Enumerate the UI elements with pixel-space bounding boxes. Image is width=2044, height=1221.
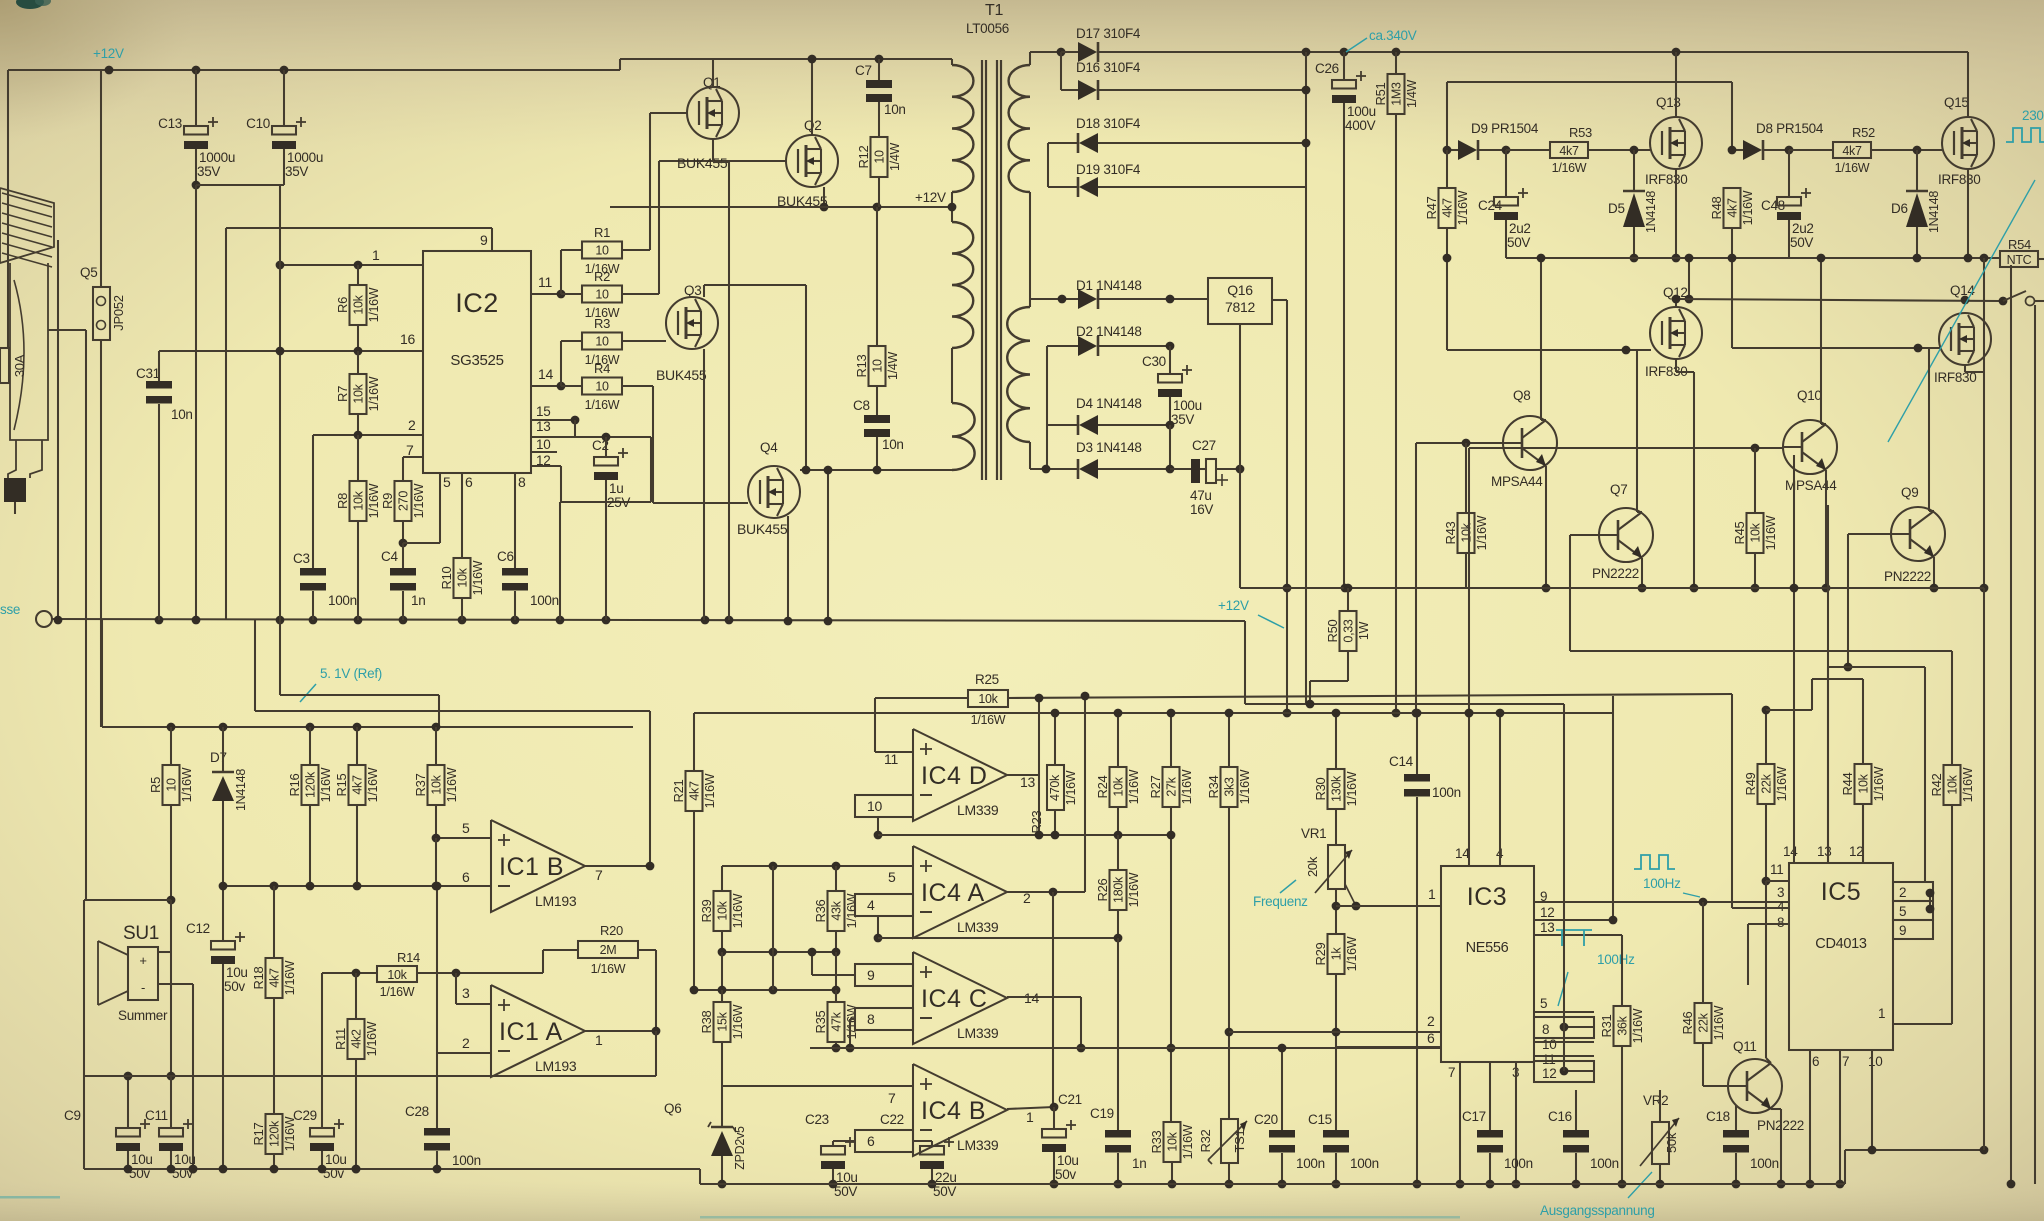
svg-text:15: 15: [536, 404, 550, 419]
wire Q15 source: [1967, 169, 1969, 258]
svg-text:7812: 7812: [1225, 299, 1255, 315]
wire R2 to Q2 gate: [658, 161, 660, 294]
svg-text:R48: R48: [1709, 196, 1724, 219]
svg-text:5: 5: [888, 869, 896, 885]
svg-text:D17 310F4: D17 310F4: [1076, 26, 1141, 41]
svg-text:10u: 10u: [1057, 1153, 1079, 1168]
wire pin13 jog to ground: [650, 437, 652, 502]
svg-text:IC4 D: IC4 D: [921, 762, 987, 790]
wire Q3 drain: [703, 285, 705, 297]
svg-text:10k: 10k: [716, 900, 730, 920]
svg-text:10: 10: [871, 359, 885, 373]
staircase drive line B: [1828, 666, 1925, 668]
svg-text:47u: 47u: [1190, 488, 1212, 503]
wire Q15 drain: [1967, 52, 1969, 117]
svg-text:5. 1V (Ref): 5. 1V (Ref): [320, 666, 382, 681]
svg-text:4k7: 4k7: [1441, 198, 1455, 218]
svg-text:R44: R44: [1840, 772, 1855, 795]
svg-text:50v: 50v: [1055, 1167, 1076, 1182]
wire pin2/5 tie: [1929, 893, 1931, 909]
resistor R49: [1765, 710, 1767, 764]
wire Q2 source down: [823, 187, 825, 207]
svg-text:+12V: +12V: [915, 190, 946, 205]
wire SU1 feed: [84, 899, 171, 901]
wire IC4A pin4 jog: [877, 916, 879, 938]
wire plus bus 1048: [810, 1047, 1441, 1049]
svg-text:Q3: Q3: [684, 283, 701, 298]
wire minus bus A: [878, 937, 1118, 939]
comparator IC4 A: [913, 846, 1007, 938]
wire ladder 990: [694, 989, 836, 991]
wire IC4A output: [1007, 891, 1085, 893]
svg-text:R47: R47: [1424, 196, 1439, 219]
svg-text:1/16W: 1/16W: [1764, 515, 1778, 550]
svg-text:1/16W: 1/16W: [1552, 161, 1587, 175]
resistor R17: [266, 1114, 283, 1154]
wire Q10 base line: [1469, 447, 1783, 449]
wire NTC branch down: [1983, 258, 1985, 588]
wire rail jog right: [1844, 1150, 1846, 1184]
wire IC4B output: [1007, 1107, 1054, 1109]
svg-text:C30: C30: [1142, 354, 1166, 369]
svg-text:C9: C9: [64, 1108, 81, 1123]
capacitor: [821, 1146, 845, 1155]
svg-text:R2: R2: [594, 269, 610, 284]
wire +12V feed down: [1286, 300, 1288, 713]
wire line 1076: [84, 1075, 171, 1077]
capacitor: [594, 457, 618, 466]
svg-text:+12V: +12V: [93, 46, 124, 61]
svg-text:6: 6: [1427, 1030, 1435, 1046]
resistor R2: [561, 293, 582, 295]
wire R25 left to pin11: [875, 697, 968, 699]
resistor R45: [1754, 448, 1756, 513]
capacitor: [1494, 197, 1518, 206]
capacitor: [310, 1128, 334, 1137]
wire Q2 drain up: [811, 59, 813, 135]
resistor R6 column: [357, 265, 359, 285]
resistor R44: [1855, 764, 1872, 804]
wire R37 column: [435, 838, 437, 886]
IC U2 SG3525: [423, 251, 531, 473]
svg-text:100u: 100u: [1347, 104, 1376, 119]
svg-text:120k: 120k: [268, 1120, 282, 1147]
scan artifact teal streak bottom: [700, 1216, 1460, 1219]
svg-text:T1: T1: [985, 2, 1003, 19]
svg-text:C13: C13: [158, 116, 182, 131]
svg-text:10u: 10u: [226, 965, 248, 980]
svg-text:D2 1N4148: D2 1N4148: [1076, 324, 1142, 339]
svg-text:10k: 10k: [352, 490, 366, 510]
comparator IC4 B: [913, 1064, 1007, 1156]
svg-text:Q14: Q14: [1950, 283, 1975, 298]
resistor R3: [582, 333, 622, 350]
capacitor: [116, 1128, 140, 1137]
svg-text:R45: R45: [1732, 521, 1747, 544]
IC U3 NE556: [1441, 866, 1534, 1062]
svg-text:5: 5: [1540, 996, 1547, 1011]
capacitor C13: [195, 70, 197, 126]
svg-text:1/16W: 1/16W: [845, 1004, 859, 1039]
svg-text:100n: 100n: [1350, 1156, 1379, 1171]
svg-text:LM339: LM339: [957, 802, 999, 818]
wire source rail: [1240, 587, 1984, 589]
svg-text:C31: C31: [136, 366, 160, 381]
wire gate drive top rail: [1447, 81, 1732, 83]
wire R49 top link: [1766, 709, 1812, 711]
resistor R49: [1758, 764, 1775, 804]
resistor R10: [454, 558, 471, 598]
resistor R24: [1110, 767, 1127, 807]
node C13 ground: [192, 181, 201, 190]
svg-text:43k: 43k: [830, 900, 844, 920]
svg-text:R51: R51: [1373, 82, 1388, 105]
svg-text:C23: C23: [805, 1112, 829, 1127]
svg-text:Frequenz: Frequenz: [1253, 894, 1308, 909]
svg-text:C19: C19: [1090, 1106, 1114, 1121]
resistor R50: [1344, 584, 1353, 593]
svg-text:1000u: 1000u: [199, 150, 235, 165]
resistor R21: [686, 771, 703, 811]
svg-text:NE556: NE556: [1466, 940, 1509, 956]
svg-text:R6: R6: [335, 297, 350, 313]
resistor R30: [1328, 769, 1345, 809]
svg-text:100n: 100n: [1504, 1156, 1533, 1171]
svg-text:D1 1N4148: D1 1N4148: [1076, 278, 1142, 293]
svg-text:1k: 1k: [1330, 947, 1344, 961]
resistor R4: [561, 385, 582, 387]
svg-text:R5: R5: [148, 777, 163, 793]
svg-text:35V: 35V: [285, 164, 308, 179]
wire +12V top rail: [8, 69, 620, 71]
svg-text:IC4 B: IC4 B: [921, 1097, 986, 1125]
svg-text:R12: R12: [856, 145, 871, 168]
resistor R48: [1724, 188, 1741, 228]
wire Q1 drain to snubber rail: [712, 59, 714, 87]
svg-text:R13: R13: [854, 354, 869, 377]
wire pin8 link: [850, 1018, 855, 1020]
svg-text:1/16W: 1/16W: [1475, 515, 1489, 550]
svg-text:R52: R52: [1852, 125, 1875, 140]
svg-text:C14: C14: [1389, 754, 1414, 769]
wire Q13 source: [1675, 169, 1677, 258]
svg-text:SG3525: SG3525: [450, 352, 503, 369]
svg-text:6: 6: [867, 1133, 875, 1149]
wire left edge down from rail: [7, 70, 9, 348]
wire Q3 source down: [703, 349, 705, 620]
resistor R42: [1951, 651, 1953, 765]
capacitor C10: [283, 70, 285, 126]
node center tap: [948, 203, 957, 212]
svg-text:2M: 2M: [600, 943, 617, 957]
svg-text:R33: R33: [1149, 1130, 1164, 1153]
svg-text:R38: R38: [699, 1010, 714, 1033]
wire bottom-left rail: [84, 1168, 700, 1170]
svg-text:+12V: +12V: [1218, 598, 1249, 613]
svg-text:10: 10: [1542, 1037, 1556, 1052]
svg-text:10k: 10k: [978, 692, 998, 706]
svg-text:R46: R46: [1680, 1011, 1695, 1034]
svg-text:R50: R50: [1325, 619, 1340, 642]
svg-text:1/16W: 1/16W: [591, 962, 626, 976]
svg-text:LM339: LM339: [957, 1025, 999, 1041]
svg-text:50V: 50V: [834, 1184, 857, 1199]
plug tip: [8, 440, 16, 478]
svg-text:2: 2: [408, 417, 416, 433]
resistor R37: [428, 765, 445, 805]
svg-text:1/16W: 1/16W: [1127, 769, 1141, 804]
svg-text:10k: 10k: [456, 567, 470, 587]
wire output feedback column: [1084, 696, 1086, 892]
svg-text:35V: 35V: [197, 164, 220, 179]
svg-text:10n: 10n: [882, 437, 904, 452]
resistor R5: [170, 727, 172, 765]
svg-text:2u2: 2u2: [1792, 221, 1814, 236]
svg-text:1/16W: 1/16W: [1456, 190, 1470, 225]
svg-text:Q8: Q8: [1513, 388, 1530, 403]
svg-text:IC1 A: IC1 A: [499, 1018, 563, 1046]
svg-text:100n: 100n: [530, 593, 559, 608]
wire Q9 base column: [1847, 534, 1849, 667]
wire right column 230V return: [2034, 712, 2036, 1184]
svg-text:9: 9: [867, 967, 875, 983]
svg-text:16V: 16V: [1190, 502, 1213, 517]
svg-text:IC4 A: IC4 A: [921, 879, 985, 907]
resistor R44: [1862, 679, 1864, 764]
svg-text:R30: R30: [1313, 777, 1328, 800]
svg-text:9: 9: [480, 232, 488, 248]
svg-text:D6: D6: [1891, 201, 1908, 216]
svg-text:R1: R1: [594, 225, 610, 240]
svg-text:10k: 10k: [1749, 522, 1763, 542]
svg-text:100n: 100n: [328, 593, 357, 608]
svg-text:1/16W: 1/16W: [471, 560, 485, 595]
svg-text:VR2: VR2: [1643, 1093, 1668, 1108]
wire rail 340V: [1306, 51, 1968, 53]
wire pin10 jog: [877, 817, 879, 835]
wire aux left column: [1046, 346, 1048, 469]
svg-text:R18: R18: [251, 966, 266, 989]
wire pin9 link: [812, 974, 855, 976]
svg-text:10: 10: [595, 244, 609, 258]
svg-text:R49: R49: [1743, 772, 1758, 795]
resistor R33: [1164, 1122, 1181, 1162]
svg-text:1N4148: 1N4148: [1927, 191, 1941, 233]
capacitor: [1042, 1129, 1066, 1138]
svg-text:12: 12: [1849, 844, 1863, 859]
svg-text:JP052: JP052: [111, 295, 126, 330]
wire Q1 source: [712, 139, 714, 162]
wire IC4C output: [1007, 996, 1081, 998]
svg-text:MPSA44: MPSA44: [1491, 474, 1543, 489]
svg-text:20k: 20k: [1305, 856, 1320, 877]
label 100Hz top: [1634, 855, 1675, 869]
resistor R13: [869, 346, 886, 386]
svg-text:10: 10: [165, 778, 179, 792]
svg-text:IC2: IC2: [455, 288, 499, 318]
wire ladder 952: [722, 951, 836, 953]
svg-text:Ausgangsspannung: Ausgangsspannung: [1540, 1203, 1655, 1218]
resistor R46: [1695, 1003, 1712, 1043]
svg-text:1/4W: 1/4W: [886, 352, 900, 380]
svg-text:10k: 10k: [430, 774, 444, 794]
resistor R18: [266, 958, 283, 998]
svg-text:1: 1: [1026, 1109, 1034, 1125]
svg-text:10: 10: [595, 288, 609, 302]
svg-text:1/16W: 1/16W: [971, 713, 1006, 727]
svg-text:9: 9: [1899, 923, 1906, 938]
capacitor: [920, 1146, 944, 1155]
svg-text:R31: R31: [1599, 1014, 1614, 1037]
resistor R7: [357, 351, 359, 374]
svg-text:+: +: [139, 953, 146, 968]
svg-text:470k: 470k: [1048, 774, 1062, 801]
svg-text:4: 4: [867, 897, 875, 913]
node masse junctions: [54, 616, 63, 625]
svg-text:1n: 1n: [1132, 1156, 1146, 1171]
svg-text:4k7: 4k7: [351, 775, 365, 795]
svg-text:4k7: 4k7: [1726, 198, 1740, 218]
svg-text:100n: 100n: [1750, 1156, 1779, 1171]
svg-text:1n: 1n: [411, 593, 425, 608]
svg-text:R26: R26: [1095, 878, 1110, 901]
svg-text:Q10: Q10: [1797, 388, 1822, 403]
resistor R5: [163, 765, 180, 805]
svg-text:1: 1: [372, 247, 380, 263]
wire right edge column: [2010, 265, 2012, 1184]
svg-text:10: 10: [867, 798, 882, 814]
svg-text:C15: C15: [1308, 1112, 1332, 1127]
svg-text:1/16W: 1/16W: [367, 287, 381, 322]
wire Q11 collector: [1766, 1058, 1771, 1063]
svg-text:8: 8: [1777, 915, 1784, 930]
scan artifact blob top-left: [16, 0, 44, 9]
svg-text:C20: C20: [1254, 1112, 1278, 1127]
svg-text:1/16W: 1/16W: [180, 767, 194, 802]
resistor R31: [1621, 935, 1623, 1006]
svg-text:C18: C18: [1706, 1109, 1730, 1124]
svg-text:D5: D5: [1608, 201, 1625, 216]
svg-text:R34: R34: [1206, 775, 1221, 798]
resistor R4: [582, 378, 622, 395]
svg-text:R27: R27: [1148, 775, 1163, 798]
svg-text:1/16W: 1/16W: [731, 893, 745, 928]
wire R37 column to pin2: [436, 886, 438, 1053]
wire masse jog down right: [1244, 621, 1246, 704]
svg-text:1/16W: 1/16W: [1345, 936, 1359, 971]
svg-text:R37: R37: [413, 773, 428, 796]
wire minus bus D: [878, 834, 1171, 836]
svg-text:1u: 1u: [609, 481, 623, 496]
svg-text:2: 2: [1427, 1013, 1435, 1029]
svg-text:PN2222: PN2222: [1884, 569, 1931, 584]
svg-text:100n: 100n: [1590, 1156, 1619, 1171]
svg-text:2u2: 2u2: [1509, 221, 1531, 236]
svg-text:1000u: 1000u: [287, 150, 323, 165]
resistor R2: [582, 286, 622, 303]
svg-text:C22: C22: [880, 1112, 904, 1127]
potentiometer R32 TS1: [1228, 1032, 1230, 1119]
svg-text:VR1: VR1: [1301, 826, 1326, 841]
svg-text:IC4 C: IC4 C: [921, 985, 987, 1013]
resistor R36: [828, 891, 845, 931]
svg-text:D4 1N4148: D4 1N4148: [1076, 396, 1142, 411]
svg-text:C7: C7: [855, 63, 872, 78]
svg-text:R4: R4: [594, 361, 610, 376]
resistor R43: [1465, 443, 1467, 513]
svg-text:C6: C6: [497, 549, 514, 564]
svg-text:LM339: LM339: [957, 1137, 999, 1153]
svg-text:100Hz: 100Hz: [1643, 876, 1681, 891]
resistor R47: [1439, 188, 1456, 228]
svg-text:130k: 130k: [1330, 775, 1344, 802]
wire Q12 drain: [1675, 299, 1677, 307]
svg-text:1/16W: 1/16W: [367, 376, 381, 411]
svg-text:14: 14: [1455, 846, 1470, 861]
wire IC1B output: [585, 865, 650, 867]
wire IC5 pin9: [1893, 920, 1933, 939]
resistor R18: [270, 882, 279, 891]
svg-text:1/16W: 1/16W: [1238, 769, 1252, 804]
wire staircase B to pin2: [1924, 667, 1926, 882]
svg-text:100Hz: 100Hz: [1597, 952, 1635, 967]
svg-text:4k7: 4k7: [1559, 144, 1579, 158]
IC U5 CD4013: [1789, 863, 1893, 1050]
svg-text:11: 11: [538, 274, 552, 290]
svg-text:R14: R14: [397, 950, 420, 965]
pin 6 box IC4B: [855, 1130, 913, 1152]
svg-text:1/16W: 1/16W: [412, 483, 426, 518]
svg-text:CD4013: CD4013: [1815, 936, 1867, 952]
resistor R16: [302, 765, 319, 805]
svg-text:100n: 100n: [1432, 785, 1461, 800]
resistor R38: [721, 952, 723, 1002]
svg-text:1/16W: 1/16W: [731, 1004, 745, 1039]
svg-text:50V: 50V: [1790, 235, 1813, 250]
svg-text:6: 6: [1812, 1054, 1819, 1069]
wire Q14 gate line: [1732, 347, 1940, 349]
svg-text:C28: C28: [405, 1104, 429, 1119]
resistor R16: [309, 727, 311, 765]
svg-text:5: 5: [1899, 904, 1906, 919]
wire bottom rail: [700, 1183, 1845, 1185]
resistor R1: [582, 242, 622, 259]
pin 9 box IC4C: [855, 964, 913, 986]
svg-text:4: 4: [1777, 899, 1785, 914]
svg-text:15k: 15k: [716, 1011, 730, 1031]
svg-text:Q4: Q4: [760, 440, 778, 455]
svg-text:C16: C16: [1548, 1109, 1572, 1124]
svg-text:IRF830: IRF830: [1938, 172, 1980, 187]
svg-text:1/16W: 1/16W: [1961, 767, 1975, 802]
svg-text:R54: R54: [2008, 237, 2031, 252]
svg-text:14: 14: [1783, 844, 1798, 859]
wire secondary top out: [1030, 51, 1061, 53]
svg-text:4k7: 4k7: [688, 781, 702, 801]
wire masse extension right: [1245, 703, 1564, 705]
wire gnd column IC3: [1563, 704, 1565, 1071]
svg-text:1/4W: 1/4W: [1405, 80, 1419, 108]
resistor R9: [395, 481, 412, 521]
svg-text:C29: C29: [293, 1108, 317, 1123]
svg-text:sse: sse: [0, 602, 20, 617]
svg-text:IRF830: IRF830: [1645, 172, 1687, 187]
svg-text:1/16W: 1/16W: [283, 960, 297, 995]
svg-text:Q15: Q15: [1944, 95, 1969, 110]
wire Q12 source: [1675, 359, 1677, 372]
wire +12V mid line: [610, 206, 952, 208]
wire rail jog up: [619, 59, 621, 70]
